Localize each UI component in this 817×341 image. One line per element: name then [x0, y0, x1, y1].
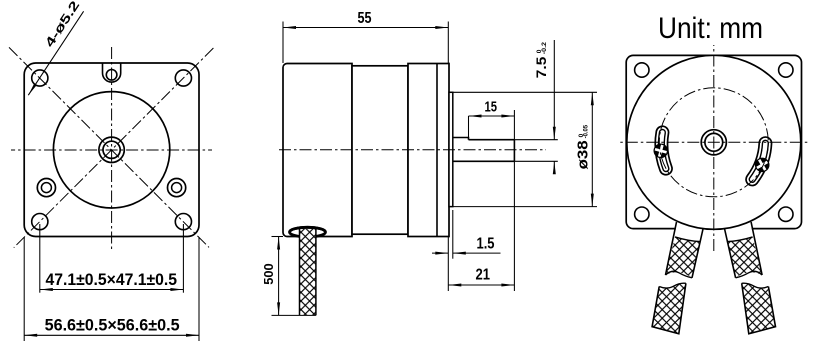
- left screw: [654, 144, 669, 159]
- centerline vertical: [111, 47, 113, 249]
- extension line square right: [198, 237, 200, 341]
- leader arrowhead: [28, 84, 36, 96]
- mounting hole top-right: [175, 70, 191, 86]
- shaft bottom line: [453, 160, 515, 162]
- front end cap: [408, 64, 449, 237]
- shaft bottom extension: [514, 160, 557, 162]
- svg-text:7.5: 7.5: [533, 56, 549, 78]
- right cable upper segment: [725, 222, 763, 278]
- side hole left inner: [41, 183, 51, 193]
- dimension line 15: [469, 115, 515, 117]
- cable outline: [300, 228, 316, 316]
- stator section: [352, 66, 408, 234]
- svg-text:ø38: ø38: [576, 140, 592, 169]
- shaft flat extension: [514, 139, 557, 141]
- extension 15 left: [468, 116, 470, 137]
- front cap ring line: [436, 64, 438, 237]
- right terminal slot: [752, 143, 770, 179]
- side hole right inner: [172, 183, 182, 193]
- svg-text:-0.05: -0.05: [583, 125, 590, 139]
- boss top edge extension: [449, 91, 597, 93]
- centerline diagonal TL-BR: [9, 47, 209, 247]
- mounting hole TL: [635, 63, 649, 77]
- bolt circle dashed: [659, 88, 768, 197]
- shaft end extension down: [513, 161, 515, 291]
- rear centerline vertical: [713, 45, 715, 252]
- dimension line 500: [278, 237, 280, 316]
- body face extension down: [447, 237, 449, 291]
- right screw: [755, 158, 770, 173]
- centerline horizontal: [11, 149, 212, 151]
- cable end line: [272, 314, 316, 316]
- cable body hatched: [300, 229, 316, 315]
- extension 55 right: [447, 22, 449, 64]
- left terminal slot: [653, 132, 668, 168]
- svg-text:56.6±0.5×56.6±0.5: 56.6±0.5×56.6±0.5: [45, 316, 180, 334]
- shaft outer circle: [99, 137, 124, 162]
- shaft top line: [453, 138, 469, 140]
- mounting hole bottom-left: [32, 214, 48, 230]
- flange square rear: [626, 55, 801, 228]
- svg-text:1.5: 1.5: [477, 236, 495, 253]
- svg-text:55: 55: [358, 10, 372, 27]
- svg-text:Unit: mm: Unit: mm: [658, 12, 763, 45]
- shaft end line: [513, 140, 515, 162]
- mounting hole TR: [779, 63, 793, 77]
- mounting hole BR: [779, 207, 793, 221]
- dimension line o38: [591, 92, 593, 206]
- dimension line 47.1: [40, 289, 184, 291]
- side hole left outer: [37, 179, 55, 197]
- top notch U: [103, 64, 121, 83]
- svg-text:-0.2: -0.2: [541, 42, 548, 55]
- grommet top arc: [290, 227, 326, 232]
- boss bottom edge extension: [449, 206, 597, 208]
- mounting hole top-left: [32, 70, 48, 86]
- svg-text:47.1±0.5×47.1±0.5: 47.1±0.5×47.1±0.5: [46, 271, 178, 289]
- rear centerline horizontal: [618, 141, 809, 143]
- grommet: [290, 227, 326, 237]
- extension 55 left: [282, 22, 284, 64]
- pilot boss: [449, 92, 453, 206]
- rear body circle: [627, 55, 801, 229]
- dimension line 55: [283, 27, 448, 29]
- svg-text:21: 21: [476, 266, 491, 283]
- extension line hole right: [182, 224, 184, 293]
- extension line hole left: [39, 224, 41, 293]
- dimension 1.5: [432, 252, 501, 254]
- shaft inner circle: [103, 141, 120, 158]
- rear center hole outer: [701, 130, 726, 155]
- leader line 4-o5.2: [28, 11, 83, 95]
- extension 500 top: [272, 236, 284, 238]
- boss face extension down: [452, 210, 454, 259]
- dimension 7.5 line: [553, 40, 555, 172]
- right cable lower segment: [742, 283, 776, 334]
- svg-text:500: 500: [261, 263, 276, 285]
- rear cables group: [652, 222, 775, 334]
- dimension text o38: [576, 125, 592, 170]
- cable body white: [300, 229, 316, 315]
- mounting hole bottom-right: [175, 214, 191, 230]
- dimension line 56.6: [24, 334, 199, 336]
- centerline horizontal (side view): [279, 149, 546, 151]
- dimension text 7.5: [533, 42, 549, 79]
- centerline diagonal TR-BL: [14, 48, 214, 248]
- left cable lower segment: [652, 283, 686, 334]
- mounting hole BL: [635, 207, 649, 221]
- lead wire (side view): [261, 227, 325, 315]
- dimension line 21: [448, 284, 514, 286]
- notch circle: [106, 70, 117, 81]
- rear end cap: [283, 64, 352, 237]
- rear center hole inner: [705, 133, 723, 151]
- shaft end extension up: [513, 110, 515, 140]
- flange square: [24, 63, 199, 237]
- shaft flat line: [469, 139, 515, 141]
- side hole right outer: [168, 179, 186, 197]
- svg-text:15: 15: [485, 100, 498, 116]
- left cable upper segment: [666, 222, 704, 278]
- body circle: [53, 92, 169, 208]
- extension line square left: [23, 237, 25, 341]
